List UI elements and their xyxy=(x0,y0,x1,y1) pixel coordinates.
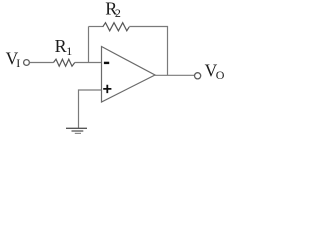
wire R2 to output node (top and right drop) xyxy=(129,27,167,76)
svg-text:O: O xyxy=(216,68,225,82)
label V_I xyxy=(6,49,21,70)
wire output xyxy=(155,74,194,76)
ground xyxy=(66,128,87,133)
wire R1 to inverting input xyxy=(75,62,102,64)
input terminal node V_I xyxy=(24,60,30,66)
minus sign inverting input xyxy=(104,62,109,64)
svg-text:2: 2 xyxy=(115,6,121,20)
wire V_I terminal to R1 xyxy=(30,62,54,64)
resistor R1 xyxy=(54,59,75,66)
svg-text:R: R xyxy=(55,36,67,56)
label R1 xyxy=(55,36,73,58)
resistor R2 xyxy=(103,23,130,31)
wire feedback riser (junction to R2 row) xyxy=(88,27,90,63)
output terminal node V_O xyxy=(195,73,201,79)
svg-text:I: I xyxy=(16,56,20,70)
wire feedback top-left to R2 xyxy=(89,26,103,28)
label V_O xyxy=(205,61,225,82)
op-amp U1 xyxy=(102,47,156,103)
label R2 xyxy=(105,0,121,20)
svg-text:1: 1 xyxy=(66,44,72,58)
wire non-inverting input to ground xyxy=(79,90,102,128)
plus sign non-inverting input xyxy=(103,85,111,93)
